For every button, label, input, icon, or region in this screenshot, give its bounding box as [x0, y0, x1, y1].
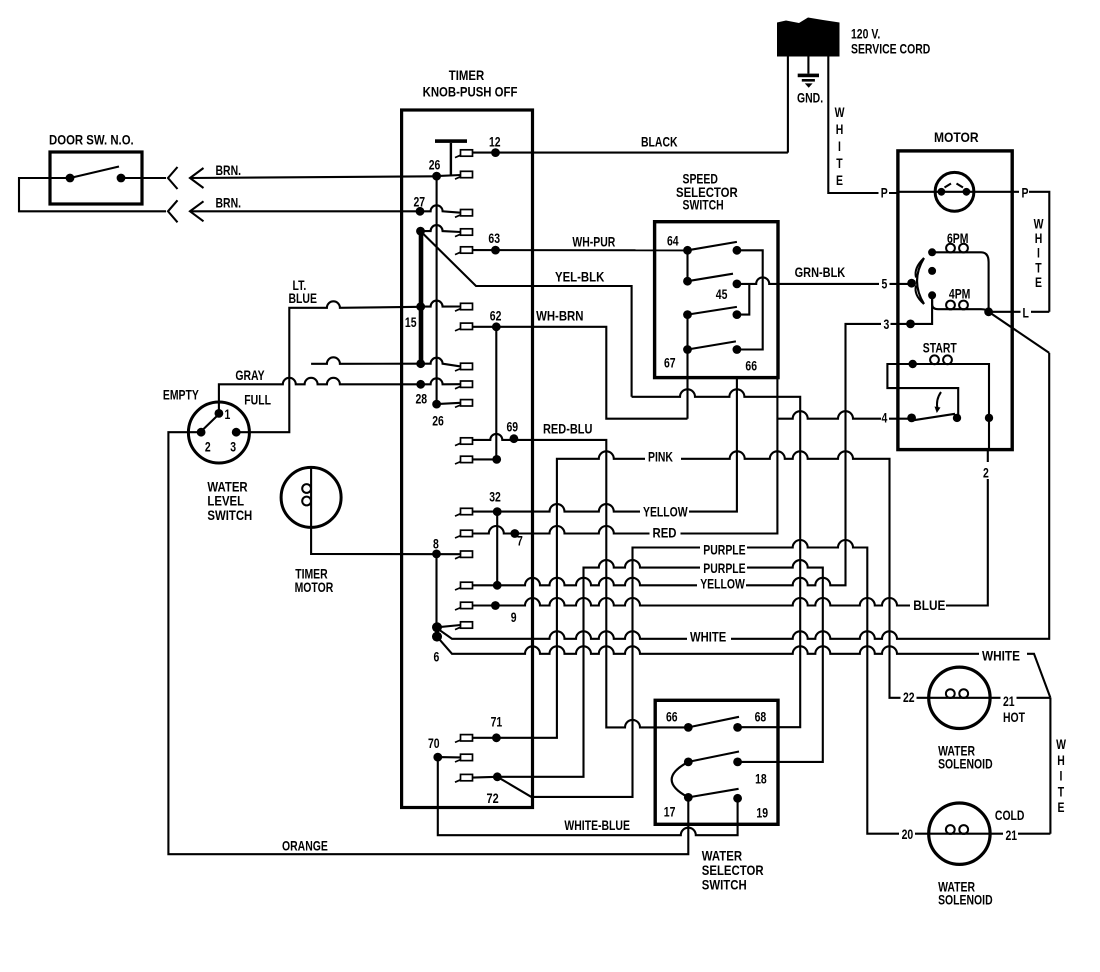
wire 15 squiggle to contact [421, 301, 461, 307]
motor centrifugal arc [917, 258, 924, 304]
motor start blade [913, 414, 955, 421]
motor 6PM coil [946, 244, 955, 253]
timer contact at y=250 [461, 247, 473, 253]
svg-text:MOTOR: MOTOR [295, 580, 334, 596]
timer contact at y=585.4 [461, 582, 473, 588]
svg-text:WATER: WATER [207, 480, 247, 495]
wire 63 row WH-PUR to speed selector 64 [473, 249, 688, 251]
svg-text:W: W [835, 105, 845, 121]
svg-text:KNOB-PUSH OFF: KNOB-PUSH OFF [423, 85, 518, 100]
svg-text:1: 1 [225, 407, 231, 423]
svg-text:63: 63 [488, 231, 500, 247]
hot solenoid coil [946, 689, 955, 698]
speed-sel blade 3 [688, 307, 737, 315]
svg-text:3: 3 [230, 439, 236, 455]
svg-text:MOTOR: MOTOR [934, 129, 979, 145]
terminal dot 8 [432, 550, 441, 559]
water level dot 1 [215, 409, 224, 418]
svg-text:BLUE: BLUE [289, 291, 317, 307]
svg-text:LEVEL: LEVEL [207, 494, 244, 509]
svg-text:WHITE-BLUE: WHITE-BLUE [564, 818, 630, 834]
svg-text:GND.: GND. [797, 90, 823, 106]
door switch blade [70, 167, 119, 179]
svg-text:P: P [1022, 185, 1029, 201]
timer contact at y=737.8 [461, 735, 473, 741]
wire motor L diagonal to white riser [989, 312, 1050, 353]
motor 6PM dot [928, 248, 936, 256]
svg-text:WH-PUR: WH-PUR [572, 234, 615, 250]
timer contact at y=459.4 [461, 456, 473, 462]
timer contact at y=232 [461, 229, 473, 235]
timer contact at y=605.4 [461, 602, 473, 608]
connector chevron row1 [168, 167, 178, 189]
svg-text:22: 22 [903, 690, 915, 706]
svg-text:SOLENOID: SOLENOID [938, 756, 993, 772]
svg-text:71: 71 [491, 714, 503, 730]
terminal dot 459 [492, 455, 501, 464]
speed-sel blade 4 [688, 341, 736, 349]
svg-text:W: W [1034, 216, 1044, 232]
water-sel dot ML [684, 758, 693, 767]
svg-text:66: 66 [745, 358, 757, 374]
label BLUE [910, 598, 946, 611]
svg-text:9: 9 [511, 610, 517, 626]
svg-text:62: 62 [490, 308, 502, 324]
terminal dot (yel-blk pivot) [416, 227, 425, 236]
wire timer-motor top row [311, 357, 421, 364]
svg-text:4PM: 4PM [949, 286, 970, 302]
svg-text:GRAY: GRAY [235, 368, 264, 384]
svg-text:FULL: FULL [244, 392, 271, 408]
wire 69 row RED-BLU to water-sel 66 [473, 434, 689, 728]
timer contact at y=306.5 [461, 303, 473, 309]
speed-sel dot 3R [733, 310, 742, 319]
wire timer motor bottom to 8 [311, 527, 460, 554]
timer vertical 32 down [496, 512, 498, 586]
arrow head row2 [190, 201, 204, 221]
svg-text:WHITE: WHITE [982, 649, 1020, 664]
motor 4PM coil [946, 301, 955, 310]
timer contact at y=777.6 [461, 774, 473, 780]
svg-text:W: W [1056, 737, 1066, 753]
svg-text:27: 27 [414, 194, 426, 210]
terminal dot 26b [432, 400, 441, 409]
wire WHITE1 to motor L riser [439, 353, 1050, 639]
svg-text:L: L [1023, 305, 1029, 321]
svg-text:SWITCH: SWITCH [683, 197, 724, 213]
water-sel dot 18 [733, 758, 742, 767]
svg-text:SOLENOID: SOLENOID [938, 892, 993, 908]
motor start dot left [909, 360, 917, 368]
svg-text:20: 20 [902, 827, 914, 843]
motor start coil [930, 355, 939, 364]
wire 26 to contact [437, 175, 461, 176]
svg-text:8: 8 [433, 536, 439, 552]
svg-text:6: 6 [434, 649, 440, 665]
wire 72 diag PURPLE1 to solenoid 20 riser [497, 540, 928, 834]
cold solenoid circle [929, 803, 990, 864]
label P left [879, 187, 889, 199]
wire motor P row [898, 192, 1049, 312]
motor dot 3 [906, 320, 915, 329]
water level blade [202, 416, 218, 431]
label 4 [879, 412, 889, 425]
motor dot coil-right [985, 414, 993, 422]
wire 26b to contact [437, 403, 461, 404]
wire 27 squiggle to contact [420, 205, 461, 212]
wire 67 down to WH-BRN junction [686, 350, 688, 419]
connector chevron row2 [168, 200, 178, 222]
terminal dot 71 [492, 733, 501, 742]
label YELLOW E [697, 578, 746, 590]
svg-text:H: H [836, 122, 844, 138]
svg-text:15: 15 [405, 315, 417, 331]
timer contact at y=757.4 [461, 754, 473, 760]
label YELLOW A [640, 506, 689, 518]
terminal dot 72 [493, 772, 502, 781]
water-sel blade top [688, 717, 739, 728]
svg-text:SERVICE CORD: SERVICE CORD [851, 41, 931, 57]
water level switch circle [188, 402, 249, 463]
timer contact at y=625 [461, 622, 473, 628]
speed-sel dot 4R [733, 345, 742, 354]
svg-text:YELLOW: YELLOW [700, 576, 745, 592]
wire 364 squiggle to contact [421, 358, 461, 367]
motor P dot right [963, 188, 971, 196]
motor start dot right [953, 414, 961, 422]
timer contact at y=511.5 [461, 508, 473, 514]
svg-text:TIMER: TIMER [449, 68, 484, 83]
svg-text:5: 5 [882, 276, 888, 292]
terminal dot t364 [416, 359, 425, 368]
terminal dot 70 [433, 753, 442, 762]
svg-text:3: 3 [884, 317, 890, 333]
svg-text:PURPLE: PURPLE [703, 561, 745, 577]
svg-text:21: 21 [1006, 828, 1018, 844]
terminal dot 27 [416, 207, 425, 216]
svg-text:HOT: HOT [1003, 710, 1026, 726]
svg-text:START: START [923, 340, 958, 356]
terminal dot E [493, 581, 502, 590]
svg-text:PINK: PINK [648, 449, 673, 465]
svg-text:EMPTY: EMPTY [163, 387, 199, 403]
motor start arrow [937, 392, 941, 409]
svg-text:BLUE: BLUE [913, 598, 945, 613]
speed-sel blade 2 [688, 274, 734, 282]
motor box [898, 151, 1012, 450]
svg-text:P: P [881, 185, 888, 201]
svg-text:PURPLE: PURPLE [703, 542, 745, 558]
cold solenoid coil [946, 825, 955, 834]
water-sel dot 68 [733, 723, 742, 732]
svg-text:BLACK: BLACK [641, 134, 678, 150]
svg-text:ORANGE: ORANGE [282, 838, 328, 854]
terminal dot white upper [432, 622, 442, 632]
wire door-sw right to connector [121, 177, 166, 179]
svg-text:GRN-BLK: GRN-BLK [795, 265, 846, 280]
svg-text:28: 28 [416, 391, 428, 407]
motor centrifugal circle [935, 172, 974, 211]
timer contact at y=326.3 [461, 323, 473, 329]
timer contact at y=554.2 [461, 551, 473, 557]
timer contact at y=174.5 [461, 171, 473, 177]
terminal dot 15 [416, 302, 425, 311]
wire LT.BLUE from water level 3 [236, 301, 421, 432]
water level dot 3 [232, 428, 241, 437]
water-sel blade mid [688, 752, 739, 762]
motor start left jog [887, 364, 958, 418]
motor 4PM dot [928, 291, 936, 299]
speed-sel vert 3L-4L [686, 315, 688, 350]
wire plug right prong WHITE to motor P [828, 57, 898, 194]
wire BRN row2 to timer 27 [190, 210, 420, 212]
terminal dot white lower [432, 632, 442, 642]
svg-text:68: 68 [755, 709, 767, 725]
svg-text:2: 2 [983, 465, 989, 481]
svg-text:26: 26 [429, 157, 441, 173]
svg-text:RED-BLU: RED-BLU [543, 421, 593, 436]
svg-text:YEL-BLK: YEL-BLK [555, 270, 604, 285]
label L [1021, 306, 1030, 319]
svg-text:H: H [1057, 752, 1065, 768]
wire E row YELLOW to motor-3 riser [473, 324, 911, 585]
svg-text:12: 12 [489, 134, 501, 150]
speed-sel right vertical [737, 250, 763, 349]
label 22 [901, 691, 917, 704]
label 21 hot [1001, 694, 1017, 707]
svg-text:T: T [1035, 260, 1042, 276]
label WHITE G [687, 631, 731, 643]
wire 70 row WHITE-BLUE to water-sel 19 [438, 757, 738, 835]
label 20 [899, 828, 915, 841]
speed-sel dot 2R [733, 280, 742, 289]
svg-text:RED: RED [653, 526, 677, 541]
svg-text:67: 67 [664, 355, 676, 371]
label 5 [879, 278, 889, 291]
svg-text:YELLOW: YELLOW [643, 504, 688, 520]
wire BRN row1 to timer 26 [190, 176, 437, 178]
water level dot 2 [197, 428, 206, 437]
svg-text:26: 26 [432, 413, 444, 429]
motor flipper bottom [916, 286, 924, 305]
hot solenoid circle [929, 667, 990, 728]
timer thick cam bar [419, 231, 424, 364]
svg-text:I: I [838, 139, 841, 155]
svg-text:21: 21 [1003, 694, 1015, 710]
timer motor coil [310, 468, 312, 528]
timer vertical 26 to 26b [436, 176, 438, 404]
wire 72 to contact [473, 776, 498, 779]
svg-text:E: E [836, 173, 843, 189]
label WHITE H [979, 649, 1027, 662]
svg-text:WH-BRN: WH-BRN [536, 309, 583, 324]
service cord plug 120V [777, 18, 840, 57]
label 21 cold [1003, 829, 1018, 842]
timer vertical 8 down [435, 554, 437, 627]
motor dot L [984, 307, 993, 316]
svg-text:WATER: WATER [702, 849, 742, 864]
wire EMPTY side / ORANGE to water-sel 17 [168, 432, 688, 854]
svg-text:DOOR SW. N.O.: DOOR SW. N.O. [49, 133, 134, 148]
speed selector box [655, 222, 778, 378]
speed-sel dot 64 [683, 246, 692, 255]
wire plug gnd prong [807, 57, 809, 74]
svg-text:70: 70 [428, 736, 440, 752]
wire 72 row PURPLE2 to water-sel 18 [497, 560, 823, 777]
timer contact at y=402.8 [461, 400, 473, 406]
svg-text:T: T [836, 156, 843, 172]
svg-text:7: 7 [517, 533, 523, 549]
svg-text:19: 19 [756, 805, 768, 821]
wire YEL-BLK diagonal [421, 231, 632, 397]
timer vertical 62 down [495, 327, 497, 460]
svg-text:T: T [1058, 784, 1065, 800]
terminal dot 32 [493, 507, 502, 516]
svg-text:BRN.: BRN. [216, 163, 242, 179]
label 3 [881, 318, 891, 331]
timer knob T-bar [435, 139, 467, 143]
label RED [650, 527, 681, 539]
wire hot-cold right link [1049, 698, 1051, 834]
water-sel blade bottom [688, 789, 738, 798]
wire 71 row PINK to solenoid 22 riser [473, 451, 929, 737]
wire 231 squiggle to contact [421, 225, 461, 232]
arrow head row1 [190, 168, 204, 188]
wire GRN-BLK to motor 5 [737, 277, 912, 283]
svg-text:69: 69 [507, 419, 519, 435]
wire plug left prong [787, 57, 789, 153]
terminal dot 12 [491, 148, 500, 157]
motor dot 5 [907, 279, 916, 288]
timer contact at y=384.2 [461, 381, 473, 387]
motor dot 4 [907, 414, 916, 423]
wire YEL-BLK lower run to water-sel 68 [632, 389, 801, 727]
terminal dot 9 [491, 601, 500, 610]
label PINK [645, 451, 681, 463]
svg-text:SWITCH: SWITCH [702, 878, 747, 893]
wire 28 squiggle to contact [421, 378, 461, 384]
wire door-sw left loop down [19, 178, 166, 211]
terminal dot 63 [491, 246, 500, 255]
svg-text:45: 45 [716, 287, 728, 303]
door switch box DOOR SW. N.O. [50, 152, 142, 204]
water-sel dot 66 [684, 723, 693, 732]
wire 7 row RED to motor-4 riser [473, 378, 778, 534]
svg-text:E: E [1035, 275, 1042, 291]
svg-text:18: 18 [755, 771, 767, 787]
svg-text:COLD: COLD [995, 808, 1025, 824]
terminal dot 26 [432, 172, 441, 181]
svg-text:72: 72 [487, 791, 499, 807]
water-sel arc [672, 762, 689, 798]
svg-text:17: 17 [664, 804, 676, 820]
label PURPLE D [700, 562, 747, 574]
motor dot aux [928, 267, 936, 275]
svg-text:4: 4 [882, 410, 888, 426]
terminal dot 28 [416, 380, 425, 389]
motor flipper top [916, 258, 924, 278]
timer contact at y=533.4 [461, 530, 473, 536]
svg-text:120 V.: 120 V. [851, 26, 880, 42]
water-sel dot 17 [684, 793, 693, 802]
svg-text:32: 32 [489, 489, 501, 505]
wire GRAY from water level 1 [219, 378, 421, 414]
svg-text:SWITCH: SWITCH [207, 508, 252, 523]
timer motor circle [281, 467, 341, 527]
timer contact at y=441 [461, 438, 473, 444]
speed-sel dot 1R [733, 246, 742, 255]
wire motor-4 row [777, 411, 911, 418]
svg-text:I: I [1060, 768, 1063, 784]
wire motor 3 row inside [911, 295, 933, 324]
speed-sel dot 3L [683, 310, 692, 319]
svg-text:64: 64 [667, 233, 679, 249]
door switch contact left [66, 174, 75, 183]
terminal dot 7 [510, 529, 519, 538]
motor P dot left [938, 188, 946, 196]
wire WHITE2 to solenoid 21 riser [439, 638, 1051, 698]
wire 62 row WH-BRN [473, 327, 688, 419]
svg-text:H: H [1035, 231, 1043, 247]
timer contact at y=153 [461, 150, 473, 156]
ground symbol [798, 74, 819, 78]
wire 32 row YELLOW to speed-sel 66 [473, 378, 737, 512]
water-sel dot 19 [733, 794, 742, 803]
svg-text:66: 66 [666, 709, 678, 725]
wire motor 2 down [988, 418, 990, 450]
svg-text:2: 2 [205, 439, 211, 455]
water selector box [655, 700, 778, 824]
speed-sel blade 1 [688, 242, 737, 250]
motor P ticks [945, 184, 964, 188]
timer contact at y=366.4 [461, 363, 473, 369]
door switch contact right [117, 174, 126, 183]
wire 9 row BLUE to motor-2 riser [473, 450, 988, 606]
label 2 motor [980, 462, 992, 479]
timer contact at y=212.7 [461, 210, 473, 216]
svg-text:SELECTOR: SELECTOR [702, 863, 764, 878]
label P right [1019, 187, 1029, 199]
speed-sel dot 2L [683, 277, 692, 286]
svg-text:E: E [1058, 800, 1065, 816]
label PURPLE C [700, 543, 747, 555]
svg-text:WHITE: WHITE [690, 630, 726, 645]
wire white-upper to contact [437, 625, 461, 627]
timer box [402, 110, 533, 808]
speed-sel dot 4L [683, 345, 692, 354]
svg-text:I: I [1037, 245, 1040, 261]
svg-text:BRN.: BRN. [216, 195, 242, 211]
terminal dot 62 [492, 322, 501, 331]
wire motor L out [989, 311, 1050, 313]
speed-sel 3R link [737, 284, 749, 315]
terminal dot 69 [510, 434, 519, 443]
wire 459 contact to dot [473, 458, 497, 460]
speed-sel vert 64-2L [686, 250, 688, 281]
wire timer 12 row + BLACK wire to service cord [473, 152, 788, 154]
